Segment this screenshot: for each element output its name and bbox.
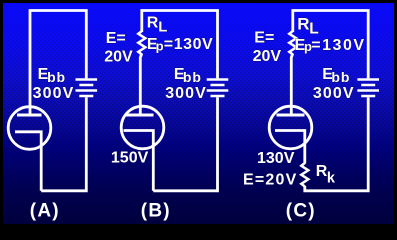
label Ebb (A) (38, 66, 66, 85)
svg-text:300V: 300V (313, 85, 355, 102)
label RL (B) (147, 15, 168, 36)
svg-text:L: L (309, 21, 318, 38)
tube V2 cathode (124, 131, 154, 191)
svg-text:E=20V: E=20V (243, 171, 297, 188)
label RL (C) (297, 15, 318, 38)
battery BT-C bars (357, 80, 379, 97)
resistor Rk (301, 163, 308, 187)
svg-text:20V: 20V (253, 48, 282, 65)
resistor RL (C) (289, 31, 296, 55)
wire B: bottom wire + battery bottom stub (153, 97, 217, 191)
wire B: resistor to tube plate (140, 54, 142, 116)
svg-text:p: p (156, 38, 164, 53)
svg-text:20V: 20V (104, 49, 133, 66)
label Ep=130V (C) (295, 37, 366, 54)
wire C: Rk to bottom wire + battery bottom stub (305, 97, 368, 191)
label Rk (316, 163, 336, 186)
wire B: left wire above resistor + top wire + right wire (142, 11, 218, 79)
svg-text:(A): (A) (30, 200, 60, 221)
svg-text:R: R (316, 163, 328, 180)
svg-text:150V: 150V (111, 150, 149, 167)
tube V3 envelope (269, 106, 312, 149)
svg-text:bb: bb (183, 69, 202, 85)
battery BT-B bars (207, 80, 229, 97)
tube V1 cathode (15, 132, 41, 191)
svg-text:E=: E= (106, 30, 126, 47)
tube V1 envelope (8, 107, 51, 150)
svg-text:k: k (327, 170, 336, 186)
label Ebb (C) (322, 66, 350, 85)
svg-text:=130V: =130V (311, 37, 365, 54)
tube V3 plate bar (277, 114, 305, 117)
tube V2 plate bar (126, 114, 154, 117)
svg-text:(C): (C) (286, 200, 316, 221)
svg-text:E=: E= (254, 30, 274, 47)
svg-text:R: R (297, 15, 309, 34)
tube V2 envelope (121, 106, 164, 149)
svg-text:130V: 130V (257, 150, 295, 167)
svg-text:R: R (147, 15, 159, 32)
svg-text:L: L (158, 19, 167, 36)
svg-text:300V: 300V (165, 85, 207, 102)
wire A: bottom wire + battery bottom stub (41, 97, 86, 191)
svg-text:bb: bb (331, 69, 350, 85)
label Ebb (B) (174, 66, 202, 85)
wire A: left wire + top wire + right wire (plate lead to battery top) (30, 11, 86, 116)
label Ep=130V (B) (147, 36, 213, 54)
svg-text:bb: bb (47, 69, 66, 85)
wire C: resistor to tube plate (291, 54, 293, 116)
tube V3 cathode (275, 131, 305, 164)
resistor RL (B) (138, 31, 145, 55)
wire C: left wire above resistor + top wire + right wire (293, 11, 368, 79)
svg-text:=130V: =130V (164, 36, 213, 53)
svg-text:(B): (B) (141, 200, 171, 221)
svg-text:300V: 300V (33, 85, 75, 102)
battery BT-A bars (76, 80, 98, 97)
tube V1 plate bar (17, 114, 42, 117)
